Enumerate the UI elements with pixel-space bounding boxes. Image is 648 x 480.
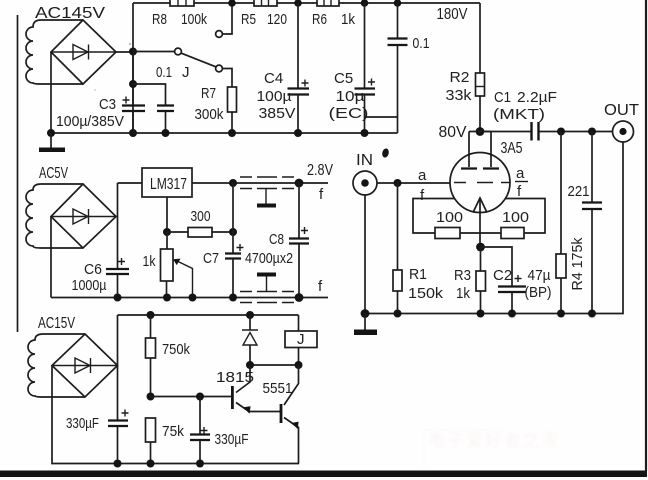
resistor 75k body [146, 418, 156, 464]
wire: filament center tap down [479, 198, 481, 247]
tube V1 filament [473, 198, 487, 213]
wire: OUT sleeve down [592, 142, 623, 314]
junction rail at C3 [129, 129, 137, 137]
resistor 100 (right) body [501, 228, 524, 239]
wire: heater return rail [51, 297, 328, 299]
wire: BR2 plus bus (to LM317 input and C6) [116, 183, 142, 298]
bridge rectifier BR1 diode [51, 45, 116, 60]
svg-text:1815: 1815 [216, 369, 254, 386]
capacitor C8 electrolytic [289, 183, 309, 298]
junction rail at R7 [228, 129, 236, 137]
svg-text:300: 300 [191, 208, 211, 225]
junction rail at C5 [361, 129, 369, 137]
resistor R7 body [228, 87, 237, 112]
wire: BR1 plus lead to vertical bus [116, 51, 133, 53]
svg-text:4700µx2: 4700µx2 [245, 250, 293, 267]
pin divider bar (right) [515, 181, 528, 183]
wire: LM317 adj pin [166, 197, 168, 232]
potentiometer 1k body [161, 232, 174, 298]
tube V1 3A5 envelope [450, 153, 510, 213]
wire: IN sleeve to ground rail [364, 195, 366, 314]
potentiometer 1k wiper arrow [173, 259, 193, 298]
svg-text:C6: C6 [84, 261, 102, 278]
svg-text:R3: R3 [454, 267, 471, 284]
svg-text:1000µ: 1000µ [72, 277, 107, 294]
svg-text:1k: 1k [456, 285, 470, 302]
wire: R7 to ground rail [231, 112, 233, 133]
tube V1 anode feeds from 80V node [469, 132, 491, 168]
transistor Q2 5551 [281, 365, 299, 464]
wire: upper contact to top rail [222, 3, 232, 34]
wire: LM317 output rail 2.8V [192, 182, 328, 184]
relay contact J: upper contact circle [216, 31, 223, 38]
wire: R2 to 80V node [479, 96, 481, 132]
svg-text:80V: 80V [439, 124, 467, 141]
junction ground rail at R1 [394, 310, 402, 318]
junction ground rail at IN [361, 309, 370, 318]
junction relay/Q2 collector [295, 361, 303, 369]
relay contact J: lower contact circle [216, 65, 223, 72]
junction rail at C4 [294, 129, 302, 137]
transformer T2 secondary AC5V coil [26, 184, 83, 248]
svg-text:R1: R1 [409, 266, 427, 283]
transformer T3 secondary AC15V coil [28, 334, 85, 397]
wire: 300 to C7 node [212, 231, 233, 233]
ink blot [381, 148, 389, 158]
svg-text:100k: 100k [181, 11, 207, 28]
svg-text:C7: C7 [203, 250, 219, 267]
svg-text:33k: 33k [446, 87, 473, 104]
junction grid/R1 [394, 179, 402, 187]
wire: divider node to Q1 base [151, 396, 233, 398]
svg-text:AC5V: AC5V [39, 165, 68, 182]
ground symbol (signal) [354, 314, 377, 336]
diode D1 (relay clamp) [242, 315, 258, 365]
jack IN [353, 171, 377, 195]
svg-text:120: 120 [267, 11, 287, 28]
svg-text:C4: C4 [264, 70, 283, 87]
transistor Q1 1815 [232, 365, 281, 414]
resistor R8 body (cut at top edge) [170, 0, 194, 6]
svg-text:C5: C5 [334, 70, 353, 87]
bridge rectifier BR3 diode [52, 358, 118, 373]
svg-text:AC15V: AC15V [38, 315, 75, 332]
svg-text:3A5: 3A5 [501, 140, 523, 157]
svg-text:电子爱好者之家: 电子爱好者之家 [428, 431, 561, 450]
wire: C7 branch vertical [232, 183, 234, 298]
svg-text:R4 175k: R4 175k [569, 237, 586, 290]
svg-text:221: 221 [568, 183, 590, 200]
junction ground rail at R4 [557, 310, 565, 318]
junction bottom rail at 330µF [196, 460, 204, 468]
resistor R3 body [476, 247, 486, 314]
ground symbol (HT supply) [39, 133, 65, 152]
junction base wire at 330µF (second) [196, 393, 204, 401]
relay contact J: blade [181, 53, 216, 67]
svg-text:C1: C1 [494, 89, 511, 106]
junction 300/C7 [229, 228, 237, 236]
bridge rectifier BR3 diamond [52, 334, 118, 397]
junction ground rail at 221 [588, 310, 596, 318]
wire: cathode node to C2 branch [481, 247, 513, 286]
scan speck near coil [129, 43, 131, 45]
svg-text:C3: C3 [99, 96, 116, 113]
svg-text:R2: R2 [450, 69, 470, 86]
svg-text:(BP): (BP) [525, 284, 552, 301]
svg-text:C2: C2 [493, 267, 512, 284]
svg-text:2.2µF: 2.2µF [517, 89, 557, 106]
svg-text:IN: IN [356, 152, 373, 169]
wire: link segment between C5 and 0.1 branches [365, 116, 398, 118]
junction return rail at C8 [295, 293, 304, 302]
scan speck above bridge1 [94, 89, 96, 91]
capacitor C5 electrolytic [355, 3, 376, 133]
wire: Q1/Q2 collector node [250, 364, 299, 366]
svg-text:LM317: LM317 [150, 176, 187, 193]
svg-text:(MKT): (MKT) [493, 106, 545, 123]
bridge rectifier BR1 diamond [51, 20, 116, 84]
wire: lower contact to R7 [222, 69, 232, 88]
wire: BR2 minus lead down to heater ground rail [50, 217, 52, 298]
svg-text:f: f [318, 278, 323, 295]
wire: adj to 300 resistor [167, 231, 188, 233]
wire: vertical from top rail down to rectifier BR1 output and rail [132, 3, 134, 133]
wire: 180V feed down to R2 [479, 3, 481, 73]
junction adj node [163, 228, 171, 236]
svg-text:10µ: 10µ [336, 88, 365, 105]
capacitor 330µF (first) electrolytic [108, 410, 129, 427]
jack OUT [613, 121, 634, 142]
svg-text:100: 100 [502, 209, 529, 226]
svg-text:180V: 180V [437, 6, 468, 23]
bridge rectifier BR2 diamond [51, 184, 116, 248]
shield dashes above 2.8V rail [240, 176, 294, 178]
junction return rail at C7 [229, 294, 237, 302]
svg-text:R7: R7 [201, 85, 216, 102]
relay contact J: common pole circle [175, 48, 182, 55]
wire: switch feed [133, 51, 175, 53]
resistor R4 body [556, 132, 566, 314]
junction top rail / C5 [361, 0, 369, 7]
svg-text:f: f [517, 183, 522, 200]
junction diode/Q1 collector [246, 361, 254, 369]
shield dashes below heater return rail [240, 302, 294, 304]
capacitor 0.1 (second, HT filter) [388, 3, 408, 133]
regulator U1 LM317 [142, 168, 192, 197]
wire: HT minus rail [51, 132, 398, 134]
svg-text:0.1: 0.1 [413, 35, 430, 52]
svg-text:(EC): (EC) [329, 105, 369, 122]
junction top rail at 750k [147, 311, 155, 319]
svg-text:5551: 5551 [263, 380, 293, 397]
svg-text:f: f [319, 186, 324, 203]
wire: 180V top rail [133, 2, 480, 4]
junction top rail at diode [246, 311, 254, 319]
junction BR1 output [129, 48, 137, 56]
shield dashes above heater return rail [240, 291, 294, 293]
svg-text:R8: R8 [152, 11, 167, 28]
junction 2.8V rail at 300/C7 branch [229, 179, 237, 187]
junction return rail at C6 [114, 294, 122, 302]
svg-text:a: a [516, 165, 525, 182]
junction top rail / C4 [294, 0, 302, 7]
shield termination bottom (bar and stem) [257, 273, 276, 292]
wire: IN to grid [377, 182, 450, 184]
junction output at 221 [588, 128, 596, 136]
capacitor C1 coupling [480, 122, 613, 141]
resistor R6 body (cut at top edge) [317, 0, 339, 6]
scan page edge bar [0, 471, 647, 478]
svg-text:J: J [297, 331, 305, 348]
svg-text:100: 100 [436, 209, 463, 226]
svg-text:OUT: OUT [604, 102, 639, 119]
junction output at R4 [557, 128, 565, 136]
faint watermark [424, 430, 561, 470]
svg-text:330µF: 330µF [215, 431, 249, 448]
capacitor C4 electrolytic [288, 3, 310, 133]
svg-text:J: J [182, 64, 190, 81]
tube V1 anode plates [461, 167, 499, 169]
svg-text:75k: 75k [162, 423, 184, 440]
svg-text:R6: R6 [312, 11, 327, 28]
svg-text:f: f [420, 187, 425, 204]
junction rail at 0.1 [162, 129, 170, 137]
junction bottom rail at BR3 cap [114, 460, 122, 468]
junction bottom rail at 75k [147, 460, 155, 468]
capacitor 330µF (second) electrolytic [190, 397, 210, 464]
junction rail at BR1 [47, 129, 55, 137]
svg-text:300k: 300k [195, 106, 224, 123]
svg-text:R5: R5 [241, 11, 256, 28]
wire: BR1 minus lead down to ground rail [50, 52, 52, 133]
resistor 300 body [188, 228, 212, 238]
svg-text:750k: 750k [162, 341, 190, 358]
capacitor C3 electrolytic [122, 52, 145, 134]
svg-text:a: a [418, 167, 427, 184]
svg-text:100µ/385V: 100µ/385V [56, 113, 124, 130]
wire: relay supply top rail [118, 314, 299, 316]
junction ground rail at C2 [508, 310, 516, 318]
transformer T1 secondary AC145V coil [26, 20, 83, 84]
filament balance loop [413, 199, 545, 234]
relay coil J [285, 315, 317, 365]
svg-text:0.1: 0.1 [156, 64, 172, 81]
junction top rail / 0.1 cap [394, 0, 402, 7]
svg-text:AC145V: AC145V [35, 5, 105, 22]
resistor R2 body [476, 73, 485, 96]
wire: signal ground rail [365, 313, 592, 315]
resistor 750k body [146, 315, 156, 397]
junction return rail at wiper [189, 294, 197, 302]
svg-text:C8: C8 [269, 231, 284, 248]
wire: BR3 minus lead and bottom return rail [52, 366, 299, 464]
bridge rectifier BR2 diode [51, 209, 116, 224]
junction cathode node [476, 243, 485, 252]
tube V1 grid (dashed) [454, 182, 510, 184]
svg-text:47µ: 47µ [528, 267, 551, 284]
junction 750k/75k divider node [147, 393, 155, 401]
node 80V junction [476, 127, 485, 136]
capacitor C7 electrolytic [225, 244, 244, 259]
resistor R5 body (cut at top edge) [254, 0, 277, 6]
junction return rail at pot 1k [163, 294, 171, 302]
svg-text:100µ: 100µ [257, 88, 292, 105]
transformer T1 primary line [17, 15, 19, 332]
capacitor C6 electrolytic [106, 258, 129, 274]
svg-text:330µF: 330µF [66, 415, 99, 432]
svg-text:1k: 1k [341, 11, 355, 28]
junction 2.8V rail at C8 [295, 179, 304, 188]
svg-text:150k: 150k [408, 285, 444, 302]
junction top rail at switch tap [228, 0, 236, 7]
scan page right border [645, 0, 647, 471]
capacitor 0.1 film (beside C3) [133, 84, 174, 133]
wire: BR3 plus bus vertical [117, 315, 119, 464]
resistor R1 body [393, 183, 402, 314]
junction ground rail at R3 [477, 310, 485, 318]
shield termination top (stem and bar) [257, 189, 276, 208]
capacitor 221 [582, 132, 602, 314]
capacitor C2 electrolytic [498, 275, 526, 314]
svg-text:1k: 1k [143, 253, 156, 270]
resistor 100 (left) body [435, 228, 460, 239]
svg-text:2.8V: 2.8V [307, 162, 333, 179]
junction C3 top tap [129, 80, 137, 88]
shield dashes below 2.8V rail [240, 188, 294, 190]
svg-text:385V: 385V [259, 105, 296, 122]
